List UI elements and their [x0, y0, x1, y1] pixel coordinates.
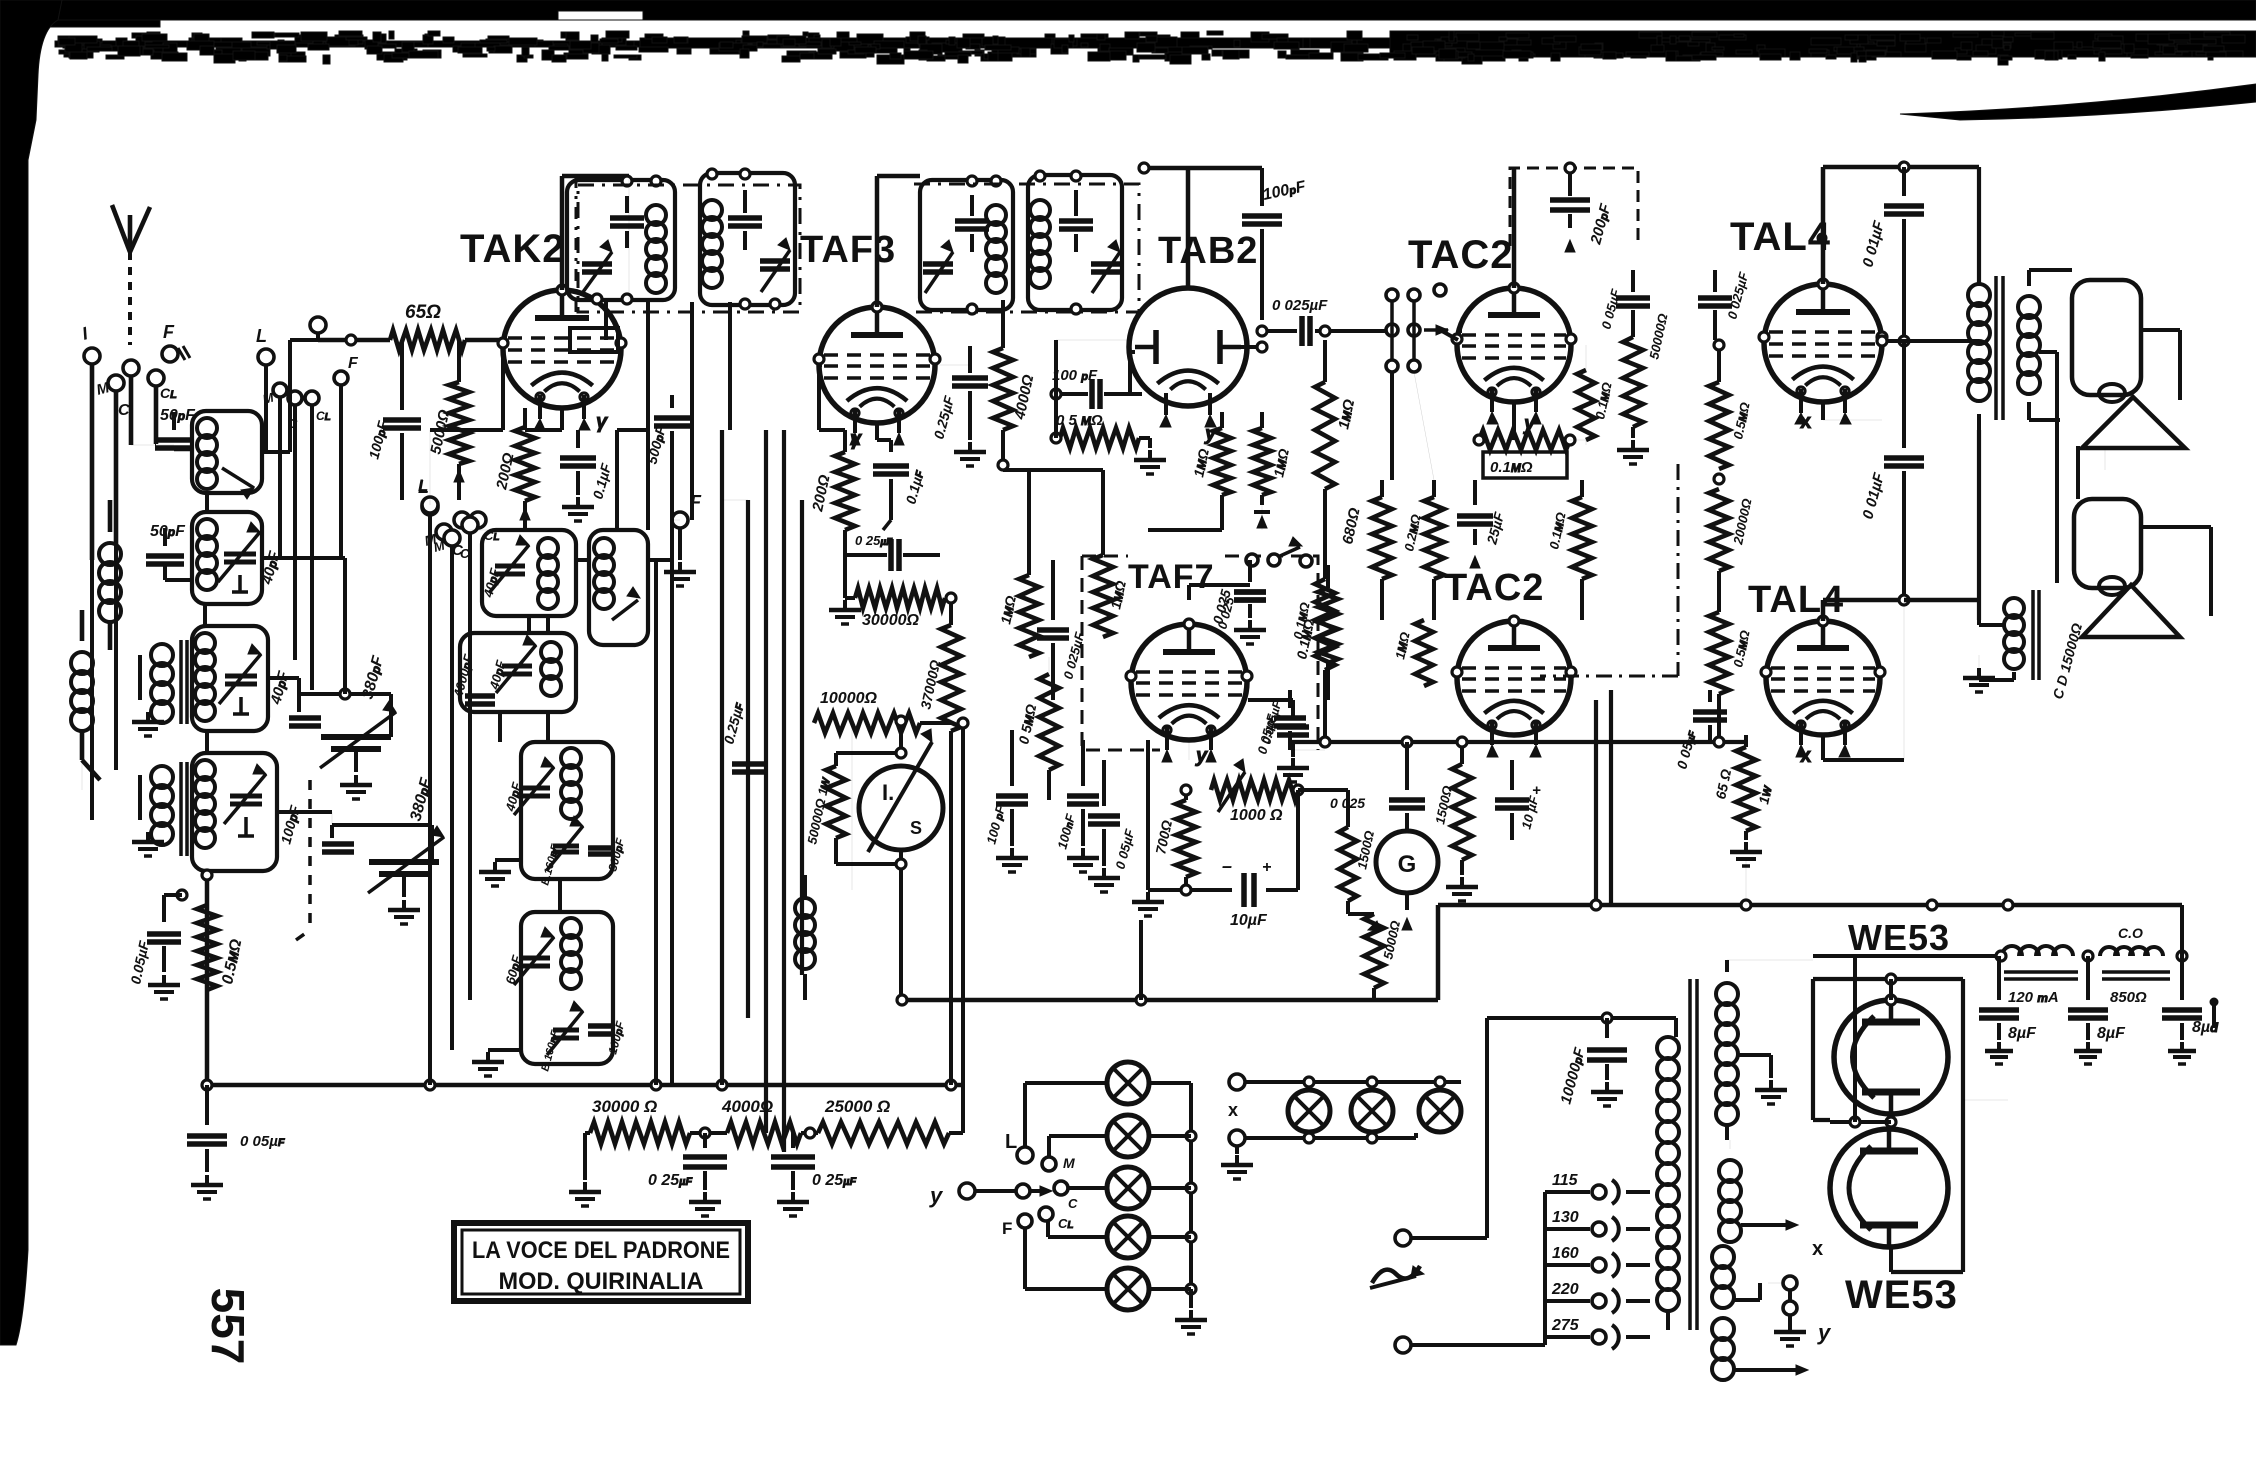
- svg-text:0 25µF: 0 25µF: [648, 1172, 692, 1189]
- variable capacitor 380pF (1): [289, 653, 396, 799]
- capacitor 0.025µF (det out): [1257, 297, 1385, 346]
- svg-text:0 25µF: 0 25µF: [812, 1172, 856, 1189]
- loudspeaker 2: [2074, 499, 2180, 637]
- resistor 0.1MΩ (TAF7): [1293, 565, 1338, 700]
- variable capacitor 380pF (2): [322, 775, 444, 924]
- svg-text:25000 Ω: 25000 Ω: [824, 1097, 890, 1116]
- terminal CL (mid): [305, 391, 331, 423]
- switch (band): [1386, 284, 1448, 372]
- resistor 1MΩ (a): [1190, 412, 1231, 495]
- wire: [470, 529, 525, 531]
- wire: [2029, 270, 2072, 420]
- label TAK2: [460, 227, 565, 271]
- resistor 200Ω (TAF3): [809, 430, 855, 530]
- svg-text:1000 Ω: 1000 Ω: [1230, 807, 1283, 824]
- wire: [897, 995, 907, 1005]
- wire: [672, 452, 680, 520]
- svg-text:1MΩ: 1MΩ: [1335, 398, 1358, 431]
- svg-text:CL: CL: [1058, 1216, 1074, 1231]
- svg-text:10000Ω: 10000Ω: [820, 690, 877, 707]
- svg-text:0 025µF: 0 025µF: [1272, 297, 1328, 314]
- resistor 0.5MΩ (a): [1709, 340, 1753, 469]
- wire: [1877, 336, 1979, 346]
- svg-text:300pF: 300pF: [605, 836, 627, 873]
- capacitor 500pF: [643, 395, 690, 466]
- capacitor 0.025 (2): [1214, 560, 1266, 631]
- terminal L (2): [418, 476, 438, 513]
- wire: HV CT ground: [1738, 1055, 1787, 1104]
- svg-text:x: x: [1228, 1100, 1238, 1120]
- capacitor 8µF (1): [1979, 956, 2037, 1064]
- resistor 37000Ω: [917, 593, 961, 1085]
- wire: [430, 513, 470, 1085]
- resistor 0.5MΩ (TAB2): [1051, 394, 1166, 474]
- wire: [692, 302, 730, 520]
- wire: [877, 423, 891, 440]
- resistor 4000Ω (chain): [690, 1097, 801, 1144]
- svg-text:I.: I.: [882, 780, 894, 805]
- svg-text:0.25µF: 0.25µF: [930, 394, 957, 441]
- svg-text:1MΩ: 1MΩ: [997, 594, 1019, 625]
- tube WE53 (1): [1834, 1000, 1948, 1114]
- wire: [2039, 330, 2211, 616]
- wire: [205, 493, 207, 753]
- tube TAB2: [1129, 288, 1247, 445]
- wire: [92, 364, 131, 560]
- wire: [266, 365, 341, 690]
- resistor 0.1MΩ (v2): [1546, 480, 1592, 579]
- svg-text:130: 130: [1552, 1209, 1579, 1226]
- wire: [155, 386, 156, 444]
- capacitor 0.25µF (dropper): [720, 701, 768, 772]
- wire: HT bus: [904, 900, 2182, 1005]
- svg-text:0.1MΩ: 0.1MΩ: [1546, 511, 1568, 551]
- svg-text:0 025µF: 0 025µF: [1724, 270, 1751, 321]
- capacitor 0.1µF (TAF3): [873, 440, 927, 530]
- pilot lamp 1: [1107, 1062, 1149, 1104]
- tube TAC2: [1452, 283, 1576, 435]
- resistor 0.5MΩ (b): [1709, 571, 1753, 740]
- svg-text:0.2MΩ: 0.2MΩ: [1401, 513, 1423, 553]
- capacitor 100pF (TAB2): [1242, 168, 1308, 320]
- svg-text:γ: γ: [850, 428, 863, 450]
- svg-text:1MΩ: 1MΩ: [1392, 631, 1412, 661]
- svg-text:TAL4: TAL4: [1730, 215, 1831, 259]
- antenna: [112, 205, 150, 345]
- tap 115: [1545, 1172, 1650, 1204]
- terminal gnd (row): [1221, 1130, 1253, 1179]
- svg-text:B.160nF: B.160nF: [539, 1029, 562, 1073]
- capacitor 100pF: [365, 340, 421, 500]
- resistor 1MΩ (d): [1093, 470, 1129, 637]
- svg-text:0 01µF: 0 01µF: [1859, 218, 1888, 269]
- tuned circuit: antenna coil A: [192, 411, 262, 499]
- svg-text:200Ω: 200Ω: [809, 473, 834, 514]
- svg-text:30000Ω: 30000Ω: [862, 612, 919, 629]
- resistor 5000Ω: [427, 340, 469, 500]
- terminal F (osc): [664, 492, 702, 586]
- capacitor 100nF: [1054, 740, 1099, 872]
- tuned circuit: coil C with 40pF trimmer + primary: [132, 626, 293, 736]
- resistor 1500Ω (G): [1339, 790, 1377, 914]
- resistor 1500Ω (2): [1432, 740, 1478, 901]
- choke 120mA: [2002, 946, 2078, 1006]
- wire: bias bus: [1290, 731, 1746, 790]
- capacitor 0.05µF (e): [1088, 760, 1138, 892]
- choke C.D 850Ω: [2100, 925, 2170, 1006]
- capacitor 0.025 (TAF7 plate): [1189, 585, 1266, 644]
- resistor 200Ω: [493, 408, 535, 530]
- wire: TAF3 plate: [877, 176, 920, 307]
- capacitor 0.1µF: [560, 430, 614, 521]
- svg-text:65 Ω: 65 Ω: [1712, 768, 1734, 801]
- pilot lamp 8: [1419, 1090, 1461, 1132]
- wire: [1056, 340, 1142, 394]
- wire: [1904, 430, 1979, 620]
- terminal M (2): [432, 530, 460, 555]
- svg-text:50pF: 50pF: [150, 523, 186, 540]
- wire: lamp column right: [1149, 1083, 1207, 1334]
- tap 130: [1545, 1209, 1650, 1241]
- wire: [720, 430, 724, 1085]
- resistor 0.1MΩ (v1): [1577, 345, 1615, 440]
- wire: tap bus: [1543, 1192, 1547, 1345]
- svg-text:115: 115: [1552, 1172, 1579, 1189]
- svg-text:100nF: 100nF: [1054, 811, 1078, 850]
- wire: [1261, 505, 1263, 530]
- mains switch: [1370, 1266, 1424, 1288]
- coil antenna LW: [99, 500, 121, 650]
- wire: lamp column left: [1025, 1083, 1107, 1289]
- tuned circuit: osc coil (arrow): [589, 530, 648, 645]
- svg-text:850Ω: 850Ω: [2110, 989, 2147, 1006]
- svg-text:L: L: [1005, 1131, 1017, 1153]
- label TAL4: [1730, 215, 1831, 259]
- wire: [600, 176, 629, 310]
- wire: [529, 616, 548, 633]
- wire: [277, 812, 332, 825]
- svg-text:S: S: [910, 818, 922, 838]
- wire: [606, 302, 648, 530]
- wire: [525, 408, 562, 430]
- wire: [174, 447, 192, 452]
- wire: [1056, 339, 1130, 341]
- wire: bottom bus: [202, 1080, 963, 1090]
- wire: WE53 plate bus: [1813, 956, 2002, 1272]
- capacitor 0.025µF (c): [1037, 560, 1088, 700]
- svg-text:C.O: C.O: [2118, 925, 2143, 941]
- switch (pickup): [1246, 537, 1312, 567]
- tuned circuit: osc coil G + B160pF + 100pF: [472, 912, 628, 1076]
- capacitor 10µF (2): [1495, 760, 1542, 840]
- tuned circuit: osc coil E + 4000pF + 40pF: [450, 633, 576, 712]
- tuned circuit: osc coil D2 + 40pF: [480, 530, 576, 616]
- terminal x (row): [1228, 1074, 1245, 1120]
- svg-text:50000Ω 1W: 50000Ω 1W: [804, 775, 833, 846]
- svg-text:I: I: [80, 323, 91, 344]
- pilot lamp 3: [1107, 1167, 1149, 1209]
- capacitor 0.025 (G): [1330, 770, 1425, 831]
- tuned circuit: coil B with 40pF trimmer: [192, 512, 284, 604]
- svg-text:C: C: [1068, 1196, 1078, 1211]
- label TAC2: [1408, 233, 1513, 277]
- wire: [1479, 402, 1514, 440]
- svg-text:0 05µF: 0 05µF: [240, 1133, 285, 1150]
- resistor 0.1MΩ (boxed): [1474, 430, 1575, 478]
- tuned circuit: coil D with trimmer + primary: [132, 753, 303, 871]
- wire: [1135, 342, 1267, 352]
- wire: [1188, 741, 1190, 760]
- wire: [1745, 860, 1747, 905]
- terminal M (osc): [423, 524, 452, 549]
- wire: [1996, 905, 2187, 961]
- scan artifact: left black margin: [0, 0, 62, 1345]
- svg-text:0.5MΩ: 0.5MΩ: [219, 937, 245, 986]
- tube WE53 (2): [1830, 1129, 1948, 1247]
- terminal M (lamps): [1042, 1155, 1075, 1171]
- wire: [82, 760, 92, 820]
- IF transformer tank I (above TAK2): [700, 169, 795, 309]
- capacitor 10µF (cath): [1186, 790, 1298, 929]
- terminal F: [162, 322, 190, 362]
- resistor 0.5MΩ (TAF7): [1015, 657, 1059, 800]
- field coil C.D 15000Ω: [1963, 590, 2085, 701]
- terminal L (mid): [256, 326, 274, 365]
- label WE53 (2): [1845, 1273, 1958, 1317]
- svg-text:+: +: [1262, 859, 1271, 876]
- wire: [1823, 402, 1882, 420]
- resistor 20000Ω: [1709, 474, 1755, 571]
- wire: TAL4-2 plate: [1823, 595, 1909, 621]
- wire: [1319, 329, 1462, 333]
- svg-text:y: y: [929, 1183, 944, 1208]
- resistor 5000Ω (G): [1348, 914, 1403, 1000]
- terminal C (2): [460, 517, 478, 561]
- capacitor 0.005µF: [1248, 699, 1309, 782]
- svg-text:0.05µF: 0.05µF: [127, 939, 152, 986]
- svg-text:4000Ω: 4000Ω: [721, 1097, 773, 1116]
- svg-text:TAB2: TAB2: [1158, 230, 1258, 272]
- terminal C (osc): [452, 512, 470, 559]
- power transformer fil secondary 2: [1712, 1318, 1808, 1380]
- wire: [1596, 690, 1611, 905]
- tube TAK2: [498, 285, 626, 433]
- wire: [998, 352, 1135, 470]
- capacitor 0.25µF (cath): [845, 530, 940, 571]
- wire: dashed IF box: [578, 185, 800, 312]
- svg-text:CL: CL: [160, 385, 177, 401]
- wire: [1392, 372, 1434, 480]
- wire: [722, 365, 845, 500]
- svg-text:x: x: [1800, 411, 1811, 433]
- svg-text:65Ω: 65Ω: [405, 302, 441, 323]
- svg-text:10µF: 10µF: [1230, 912, 1268, 929]
- label TAB2: [1158, 230, 1258, 272]
- svg-text:C: C: [118, 402, 130, 419]
- dashed box 200pF: [1510, 168, 1638, 246]
- capacitor 0.05µF (TAC2): [1598, 270, 1650, 331]
- svg-text:0 05µF: 0 05µF: [1112, 827, 1137, 871]
- wire: gang dashed link: [296, 780, 310, 940]
- resistor 1MΩ (TAC2): [1315, 326, 1358, 489]
- svg-text:0 5MΩ: 0 5MΩ: [1015, 703, 1039, 746]
- svg-text:40pF: 40pF: [267, 669, 292, 707]
- capacitor 0.01µF (1): [1859, 167, 1924, 346]
- svg-text:4000pF: 4000pF: [450, 652, 476, 700]
- wire: [310, 317, 390, 345]
- capacitor 0.025µF (TAL4 grid): [1698, 270, 1752, 340]
- label TAF3: [800, 229, 896, 271]
- IF transformer tank H (above TAK2): [567, 176, 675, 304]
- terminal L (lamps): [1005, 1131, 1033, 1163]
- tube TAC2 (2): [1452, 616, 1576, 757]
- wire: [1513, 620, 1515, 640]
- wire: [2104, 448, 2106, 470]
- svg-text:y: y: [1817, 1320, 1832, 1345]
- svg-text:0.1MΩ: 0.1MΩ: [1490, 459, 1533, 476]
- capacitor 0.05µF (f): [1254, 690, 1306, 756]
- power transformer fil secondary: [1712, 1246, 1782, 1308]
- wire: dash-dot (AVC): [1540, 464, 1678, 676]
- svg-text:200Ω: 200Ω: [493, 451, 518, 492]
- power transformer HV secondary: [1716, 960, 1738, 1140]
- wire: [935, 365, 970, 1085]
- IF transformer tank K (above TAB2): [1028, 171, 1122, 314]
- resistor 25000Ω (chain): [801, 1085, 963, 1144]
- capacitor 50pF: [131, 407, 196, 448]
- resistor 1MΩ (c): [997, 470, 1039, 657]
- wire: [92, 545, 116, 790]
- wire: [576, 558, 672, 562]
- wire: [1442, 331, 1458, 340]
- svg-text:x: x: [1812, 1238, 1823, 1260]
- resistor 30000Ω (chain): [569, 1097, 690, 1206]
- coil antenna LW2: [71, 610, 100, 780]
- terminal F (lamps): [1002, 1214, 1032, 1238]
- loudspeaker 1: [2072, 280, 2185, 448]
- svg-text:G: G: [1398, 851, 1417, 878]
- wire: TAL4 plate bus: [1823, 162, 1979, 284]
- svg-text:4000Ω: 4000Ω: [1011, 373, 1037, 422]
- capacitor 0.01µF (2): [1859, 341, 1924, 600]
- wire: [1963, 1099, 2008, 1101]
- scan artifact: right diagonal streak: [1900, 84, 2256, 120]
- tube TAL4 (2): [1761, 616, 1885, 767]
- resistor 680Ω: [1339, 480, 1392, 579]
- wire: [262, 340, 318, 452]
- wire: [782, 430, 786, 1152]
- svg-text:F: F: [1002, 1219, 1012, 1238]
- svg-text:20000Ω: 20000Ω: [1730, 497, 1755, 546]
- resistor 0.2MΩ: [1401, 480, 1444, 579]
- resistor 10000Ω: [814, 690, 951, 733]
- svg-text:γ: γ: [596, 411, 609, 433]
- wire: [1290, 700, 1325, 750]
- resistor 4000Ω: [993, 300, 1037, 460]
- svg-text:100 pF: 100 pF: [983, 803, 1008, 846]
- tube TAF7: [1126, 619, 1252, 767]
- tuned circuit: osc coil F + B160pF + 300pF: [479, 742, 628, 887]
- svg-text:1MΩ: 1MΩ: [1190, 447, 1212, 478]
- svg-text:50000Ω: 50000Ω: [1646, 312, 1670, 360]
- wire: [1148, 495, 1222, 530]
- wire: lamp row: [1245, 1077, 1461, 1143]
- wire: TAB2 plate bus: [1139, 163, 1262, 288]
- capacitor 50pF (2): [146, 523, 192, 580]
- capacitor 0.05µF (g): [1673, 690, 1727, 771]
- svg-text:x: x: [1800, 745, 1811, 767]
- wire: [268, 678, 299, 694]
- output transformer: [1968, 167, 2040, 430]
- svg-text:y: y: [1195, 745, 1208, 767]
- svg-text:200pF: 200pF: [1587, 201, 1614, 247]
- svg-text:F: F: [348, 355, 359, 372]
- capacitor 25µF: [1457, 480, 1507, 568]
- wire: [430, 349, 503, 505]
- svg-text:–: –: [1222, 856, 1232, 876]
- wire: dash-dot box (TAB2 IF): [914, 184, 1139, 312]
- svg-text:10000pF: 10000pF: [1557, 1045, 1589, 1106]
- svg-text:TAC2: TAC2: [1444, 567, 1544, 609]
- resistor 700Ω: [1152, 785, 1196, 890]
- terminal C: [118, 360, 139, 419]
- scan artifact: speckled bar: [55, 31, 2256, 65]
- svg-text:TAF3: TAF3: [800, 229, 896, 271]
- capacitor 200pF: [1514, 163, 1615, 288]
- resistor 50000Ω 1W: [804, 753, 901, 864]
- capacitor 0.25µF (TAF3 plate): [930, 346, 988, 466]
- terminal CL: [148, 370, 177, 401]
- svg-text:8µF: 8µF: [2008, 1025, 2037, 1042]
- wire: [1325, 489, 1582, 620]
- coil: RF choke: [795, 875, 815, 1000]
- svg-text:100pF: 100pF: [1261, 178, 1308, 204]
- pilot lamp 7: [1351, 1090, 1393, 1132]
- svg-text:8µF: 8µF: [2097, 1025, 2126, 1042]
- svg-text:+: +: [1532, 782, 1541, 799]
- resistor 65Ω 1W: [1712, 735, 1775, 866]
- tube TAL4: [1759, 279, 1887, 433]
- terminal L (osc): [418, 477, 438, 515]
- terminal C (mid): [288, 391, 302, 431]
- capacitor 0.25µF (chain 1): [648, 1133, 727, 1216]
- svg-text:LA VOCE DEL PADRONE: LA VOCE DEL PADRONE: [472, 1237, 730, 1264]
- svg-text:160: 160: [1552, 1245, 1579, 1262]
- potentiometer 1000Ω: [1211, 759, 1303, 824]
- wire: [851, 723, 853, 890]
- capacitor 8µF (3): [2162, 956, 2219, 1064]
- svg-text:0 01µF: 0 01µF: [1859, 470, 1888, 521]
- svg-text:557: 557: [202, 1288, 254, 1365]
- wire: [746, 500, 750, 1018]
- wire: [500, 712, 560, 912]
- terminal CL (lamps): [1039, 1207, 1074, 1231]
- wire: [1139, 920, 1143, 1000]
- capacitor 100pF (d): [983, 730, 1028, 872]
- wire: [262, 558, 345, 694]
- label TAL4 (2): [1748, 579, 1844, 621]
- pilot lamp 2: [1107, 1115, 1149, 1157]
- wire: [1457, 675, 1462, 677]
- svg-text:37000Ω: 37000Ω: [917, 658, 943, 710]
- svg-text:WE53: WE53: [1848, 917, 1950, 958]
- sheet number 557: [202, 1288, 254, 1365]
- svg-text:0 25µF: 0 25µF: [855, 533, 893, 548]
- resistor 30000Ω: [829, 555, 945, 629]
- resistor 0.1MΩ (TAC2-2): [1290, 530, 1335, 700]
- svg-text:120 mA: 120 mA: [2008, 989, 2059, 1006]
- label WE53: [1848, 917, 1950, 958]
